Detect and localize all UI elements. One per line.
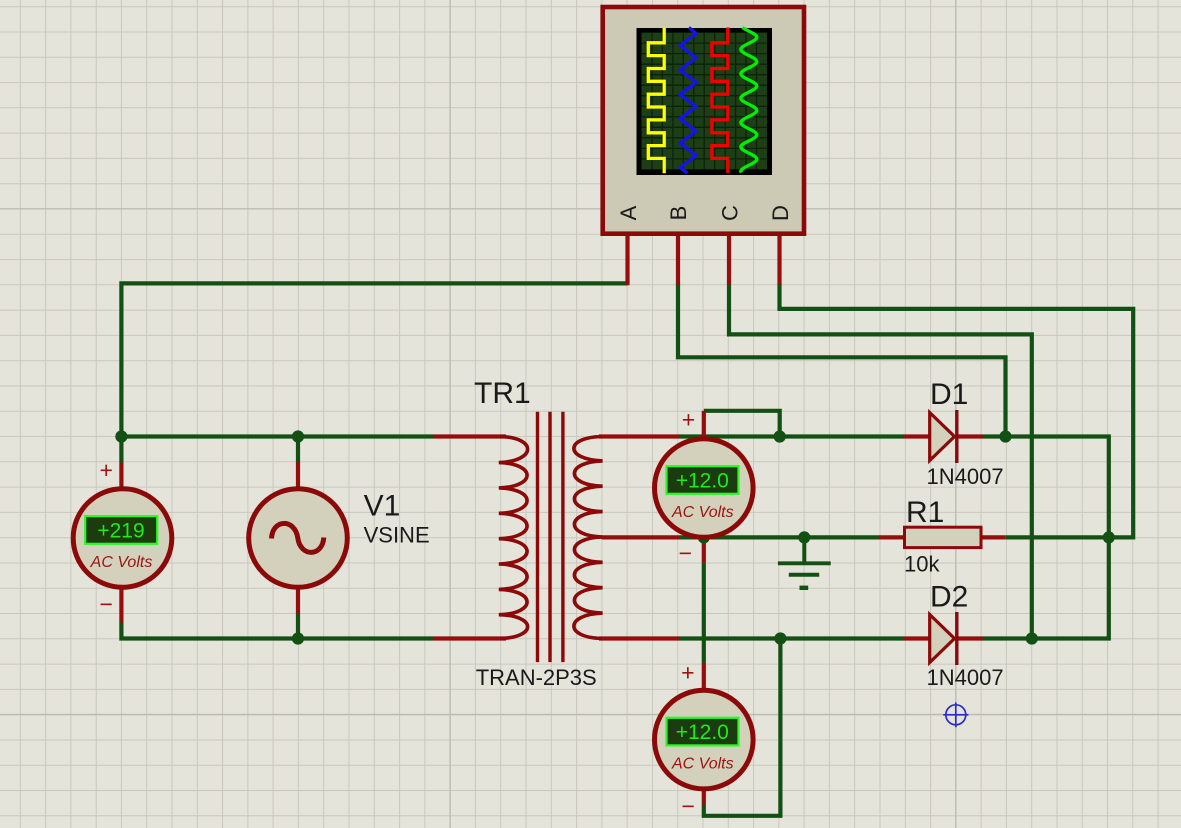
wire center tap to R1 left <box>679 535 879 539</box>
source V1 sine symbol <box>272 523 324 552</box>
wire V1 bottom stub <box>296 614 300 639</box>
node V3 return node <box>774 632 786 644</box>
node R1 right node <box>1103 531 1115 543</box>
pin scope pin D <box>777 234 781 285</box>
svg-text:TR1: TR1 <box>474 377 531 410</box>
pin scope pin C <box>727 234 731 285</box>
pin voltmeter V4 - pin <box>119 590 123 623</box>
svg-text:D1: D1 <box>930 378 968 411</box>
voltmeter V2 body <box>655 439 754 538</box>
node V1 bottom node <box>292 632 304 644</box>
transformer TR1 secondary winding <box>574 437 603 639</box>
svg-text:+: + <box>682 407 695 433</box>
svg-text:+: + <box>99 457 112 483</box>
trace channel A yellow square wave <box>648 28 664 174</box>
svg-text:1N4007: 1N4007 <box>927 464 1004 489</box>
svg-text:C: C <box>718 205 743 221</box>
svg-text:AC Volts: AC Volts <box>671 756 734 773</box>
node center tap node <box>698 531 710 543</box>
oscilloscope body <box>603 7 804 234</box>
voltmeter V3 LCD display <box>667 718 739 746</box>
wire TR1 secondary bottom to D2 anode <box>679 636 904 640</box>
svg-text:VSINE: VSINE <box>364 523 430 548</box>
voltmeter V3 body <box>655 690 754 789</box>
svg-text:+12.0: +12.0 <box>676 721 729 744</box>
svg-text:−: − <box>681 793 694 819</box>
pin voltmeter V3 + pin <box>702 663 706 689</box>
pin voltmeter V2 + pin <box>702 411 706 438</box>
wire V3 minus return to D2 anode node <box>704 639 781 816</box>
node ground node <box>798 531 810 543</box>
pin TR1 secondary top lead <box>599 434 679 438</box>
wire bottom row meter to TR1 primary bottom <box>121 622 433 639</box>
transformer TR1 core <box>538 412 563 662</box>
oscilloscope screen <box>637 28 773 175</box>
node V1 top node <box>292 430 304 442</box>
pin D1 anode lead <box>903 434 930 438</box>
wire scope B to D1 cathode node <box>678 284 1006 437</box>
trace channel B blue triangle wave <box>680 28 696 174</box>
node D1 cathode node <box>999 430 1011 442</box>
svg-text:10k: 10k <box>904 552 940 577</box>
pin D1 cathode lead <box>957 434 983 438</box>
svg-text:+219: +219 <box>97 520 144 543</box>
svg-text:AC Volts: AC Volts <box>90 554 153 571</box>
pin TR1 secondary bottom lead <box>599 636 679 640</box>
svg-text:1N4007: 1N4007 <box>927 665 1004 690</box>
wire V1 top stub <box>296 437 300 463</box>
source V1 body <box>249 489 348 588</box>
svg-text:D2: D2 <box>930 581 968 614</box>
pin TR1 primary top lead <box>433 434 506 438</box>
diode D2 <box>930 615 955 663</box>
wire top row left meter to TR1 primary <box>121 434 433 438</box>
wire left meter top stub <box>119 437 123 463</box>
pin R1 left lead <box>879 535 905 539</box>
pin voltmeter V3 - pin <box>702 790 706 805</box>
origin marker <box>943 702 968 727</box>
svg-text:B: B <box>666 206 691 221</box>
svg-text:−: − <box>679 540 692 566</box>
svg-text:TRAN-2P3S: TRAN-2P3S <box>476 665 597 690</box>
svg-text:V1: V1 <box>364 489 401 522</box>
svg-text:A: A <box>616 205 641 220</box>
wire scope C to D2 cathode node <box>729 284 1032 639</box>
pin TR1 primary bottom lead <box>433 636 506 640</box>
ground <box>778 537 831 587</box>
voltmeter V4 LCD display <box>85 516 157 544</box>
pin source V1 + pin <box>296 462 300 488</box>
svg-text:+12.0: +12.0 <box>676 470 729 493</box>
pin R1 right lead <box>981 535 1006 539</box>
node V2 plus node <box>774 430 786 442</box>
wire V2 minus to V3 plus <box>702 563 706 664</box>
svg-text:D: D <box>768 205 793 221</box>
pin D2 cathode lead <box>957 636 983 640</box>
pin TR1 secondary tap lead <box>602 535 679 539</box>
svg-text:AC Volts: AC Volts <box>671 504 734 521</box>
screen graticule <box>642 33 768 170</box>
trace channel C red square wave <box>712 28 728 174</box>
pin D2 anode lead <box>903 636 930 640</box>
svg-text:+: + <box>681 660 694 686</box>
resistor R1 <box>905 527 982 547</box>
node D2 cathode node <box>1026 632 1038 644</box>
wire scope D to R1 right node <box>780 284 1134 538</box>
wire V2 plus to secondary top node <box>704 411 780 437</box>
pin source V1 - pin <box>296 589 300 614</box>
transformer TR1 primary winding <box>499 437 528 639</box>
svg-text:R1: R1 <box>906 496 944 529</box>
pin scope pin A <box>625 234 629 286</box>
pin voltmeter V2 - pin <box>702 539 706 563</box>
pin voltmeter V4 + pin <box>119 463 123 488</box>
svg-text:−: − <box>99 591 112 617</box>
wire scope A to left node <box>121 283 627 436</box>
voltmeter V2 LCD display <box>667 466 739 494</box>
voltmeter V4 body <box>73 489 172 588</box>
diode D1 <box>930 413 955 461</box>
node left node <box>115 430 127 442</box>
wire TR1 secondary top to D1 anode <box>679 434 904 438</box>
trace channel D green sine wave <box>741 28 757 173</box>
wire D1 cathode to R1 right vertical to D2 cathode <box>982 437 1109 639</box>
pin scope pin B <box>676 234 680 285</box>
